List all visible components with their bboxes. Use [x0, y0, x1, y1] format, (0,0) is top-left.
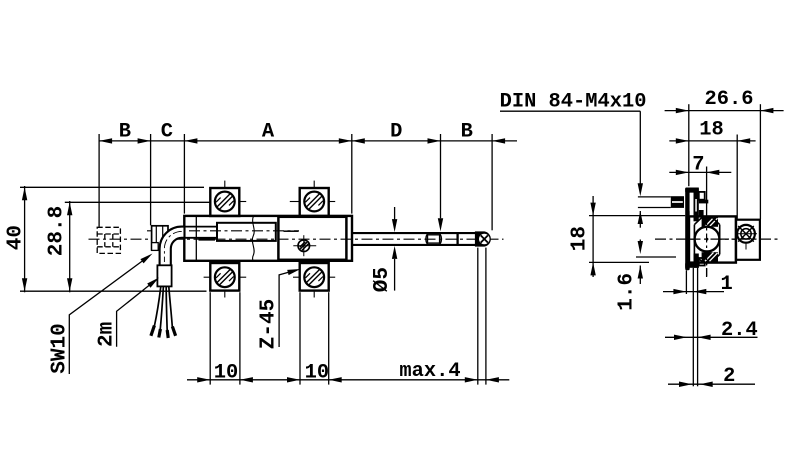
svg-text:max.4: max.4 — [399, 360, 460, 383]
svg-text:C: C — [161, 121, 173, 144]
screw DIN84 side view — [638, 196, 684, 208]
clamp strap top — [685, 188, 708, 222]
svg-text:B: B — [119, 121, 131, 144]
svg-text:2.4: 2.4 — [721, 319, 758, 342]
thick centerline segment left — [199, 238, 216, 240]
tube lines into body — [185, 226, 217, 228]
arrows 10 second — [287, 377, 300, 382]
hex nut SW10 dashed — [97, 227, 120, 253]
wire 1 — [154, 287, 161, 328]
dimension line 2 — [668, 383, 755, 385]
svg-text:28.8: 28.8 — [46, 206, 69, 256]
ring bar — [456, 233, 458, 244]
tick L3 — [636, 256, 676, 258]
extension line C-A — [183, 134, 185, 214]
arrow A right — [339, 138, 352, 143]
arrow on D-B extension pointing down at shaft element — [438, 218, 443, 231]
probe tip — [475, 231, 491, 246]
svg-text:26.6: 26.6 — [705, 88, 754, 111]
svg-text:SW10: SW10 — [49, 323, 72, 373]
svg-text:40: 40 — [4, 225, 27, 250]
bend axis line — [164, 231, 181, 262]
cable gland — [157, 265, 171, 286]
dimension line 18 vertical — [592, 196, 594, 277]
dimension line B C A D B — [99, 140, 517, 142]
arrow 40 down — [22, 278, 27, 291]
arrows 2.4 — [674, 335, 687, 340]
arrows 18 — [676, 138, 689, 143]
extension line flange face — [688, 104, 690, 186]
main body outline — [184, 216, 352, 261]
wire 3 — [166, 287, 167, 332]
extension lines 10 left bracket — [209, 292, 211, 384]
dimension line 1 — [663, 291, 724, 293]
side block with screw — [736, 220, 760, 260]
svg-text:18: 18 — [568, 226, 591, 251]
leader SW10 — [69, 261, 143, 375]
cable elbow fitting SW10 — [152, 226, 168, 250]
leader 2m — [117, 285, 150, 347]
wire 4 — [169, 287, 173, 329]
mounting bracket top-right — [290, 181, 335, 216]
extension line 18 right — [736, 135, 738, 219]
inner cartridge — [217, 223, 276, 241]
arrow D left — [352, 138, 365, 143]
extension lines max4 — [477, 248, 479, 385]
arrows 18 vertical — [590, 203, 595, 216]
tick L1 — [589, 215, 685, 217]
bottom dimension line — [187, 379, 509, 381]
clamp jaw top — [702, 217, 718, 227]
tick 40 top — [20, 186, 204, 188]
dimension line 7 — [669, 171, 731, 173]
svg-text:Ø5: Ø5 — [371, 267, 394, 292]
arrow 40 up — [22, 187, 27, 200]
wire 2 — [160, 287, 163, 331]
arrows max4 — [465, 377, 478, 382]
right block heavy outline — [278, 217, 346, 260]
dimension line 2.4 — [665, 336, 758, 338]
tick 40/28.8 bottom — [20, 290, 207, 292]
dimension line 26.6 — [665, 110, 784, 112]
svg-text:B: B — [461, 121, 473, 144]
centerlines over circle — [690, 216, 736, 276]
extension line 26.6 right — [759, 104, 761, 219]
clamp jaw bottom — [702, 252, 718, 261]
inner bore line in right block — [284, 230, 299, 232]
extension line B-right — [491, 134, 493, 230]
svg-text:1.6: 1.6 — [615, 273, 638, 311]
dimension line 40 — [24, 186, 26, 292]
leader Z-45 — [279, 272, 289, 347]
svg-text:10: 10 — [305, 361, 329, 384]
arrow B2 right — [492, 138, 505, 143]
arrow A left — [184, 138, 197, 143]
screw Z-45 inside right block — [293, 235, 316, 256]
svg-text:10: 10 — [214, 361, 238, 384]
centerline right view — [655, 238, 779, 240]
svg-text:Z-45: Z-45 — [257, 299, 280, 349]
arrows 7 — [676, 170, 689, 175]
break line wavy — [252, 216, 254, 261]
probe shaft — [352, 232, 476, 234]
arrow 28.8 up — [67, 202, 72, 215]
svg-text:2m: 2m — [95, 322, 118, 347]
mounting bracket bottom-right — [293, 263, 335, 298]
arrow B left — [99, 138, 112, 143]
svg-text:A: A — [262, 121, 275, 144]
svg-text:1: 1 — [720, 273, 732, 296]
svg-text:D: D — [390, 121, 402, 144]
arrow D right / B2 shared — [428, 138, 441, 143]
extension line 7 right / screw axis — [706, 167, 708, 216]
arrow B right — [138, 138, 151, 143]
tube lines below — [692, 268, 694, 387]
dimension line 28.8 — [69, 201, 71, 292]
arrows 26.6 — [676, 108, 689, 113]
diameter 5 arrows — [394, 207, 396, 220]
arrows 10 first — [197, 377, 210, 382]
arrow up at screw — [638, 211, 643, 224]
body left cap inner line — [195, 216, 197, 260]
dimension line 18 horizontal — [669, 140, 755, 142]
extension line D-B with arrow to shaft — [440, 134, 442, 218]
extension lines 10 right bracket — [299, 292, 301, 384]
small dim segments at x=640 — [639, 211, 641, 228]
tick 28.8 top — [65, 201, 212, 203]
svg-text:7: 7 — [692, 153, 704, 176]
body end view — [689, 216, 736, 262]
cable axis centerline — [147, 230, 299, 232]
bend tube white filled — [160, 227, 185, 266]
vertical line flange bottom — [685, 270, 687, 294]
bore circle — [695, 227, 720, 252]
svg-text:DIN 84-M4x10: DIN 84-M4x10 — [500, 91, 647, 114]
extension line A-D — [351, 134, 353, 214]
extension line B-left — [98, 134, 100, 227]
sensing element rings — [426, 234, 428, 245]
mounting bracket top-left — [210, 181, 246, 216]
extension line B-C — [150, 134, 152, 225]
flange plate — [685, 188, 690, 271]
arrows 1 — [673, 289, 686, 294]
arrows 1.6 — [638, 241, 643, 254]
mounting bracket bottom-left — [204, 263, 247, 298]
svg-text:18: 18 — [699, 118, 723, 141]
clamp strap bottom — [685, 254, 705, 268]
main centerline left view — [89, 238, 504, 240]
octagon flats — [694, 216, 719, 262]
arrows 2 — [679, 382, 692, 388]
arrow 28.8 down — [67, 278, 72, 291]
tick L2 — [589, 261, 649, 263]
svg-text:2: 2 — [723, 365, 735, 388]
